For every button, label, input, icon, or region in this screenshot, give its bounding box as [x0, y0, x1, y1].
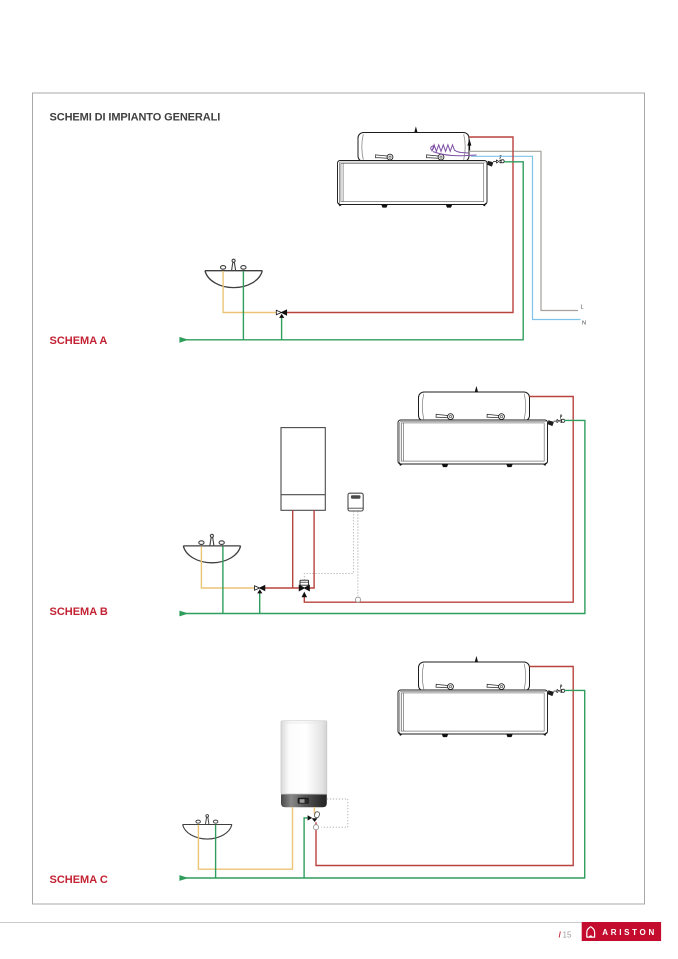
- probe pill C: [314, 825, 319, 830]
- svg-text:SCHEMA A: SCHEMA A: [50, 335, 108, 347]
- purple element lead A: [433, 152, 477, 156]
- green cold water main B: [182, 420, 585, 613]
- dotted control wire probe B: [357, 511, 359, 596]
- green inlet arrow C: [179, 875, 188, 881]
- sink C: [183, 815, 232, 839]
- yellow mixed-water pipe A: [223, 271, 276, 313]
- sink B: [183, 534, 240, 562]
- valve actuator B: [300, 580, 309, 585]
- electric water heater body C: [0, 0, 1, 1]
- svg-text:SCHEMA B: SCHEMA B: [50, 606, 108, 618]
- footer rule: [0, 922, 582, 924]
- green branch to valve B: [259, 592, 261, 613]
- green sink feed A: [242, 271, 244, 340]
- dotted control wire C: [321, 799, 348, 827]
- yellow inlet stub C: [313, 807, 315, 814]
- purple heating element A: [431, 145, 469, 153]
- ariston logo box: [582, 922, 661, 941]
- red pipe from heater B: [304, 397, 573, 603]
- mixing valve B: [255, 586, 260, 591]
- heater C bottom band: [281, 794, 327, 807]
- mixing valve A: [276, 310, 281, 315]
- check valve C: [314, 811, 320, 818]
- yellow hot pipe C: [198, 807, 292, 869]
- svg-text:/: /: [559, 931, 562, 940]
- red boiler flow pipes B: [293, 510, 314, 588]
- red arrow into valve B: [302, 592, 308, 598]
- red hot water pipe A: [287, 137, 513, 313]
- dotted control wire valve B: [304, 511, 353, 580]
- probe pill B: [356, 597, 361, 602]
- water heater A: [338, 126, 505, 207]
- page frame: [33, 93, 645, 904]
- green inlet arrow B: [179, 611, 188, 617]
- three-way valve B: [299, 585, 304, 590]
- green inlet arrow A: [179, 337, 188, 343]
- blue neutral line A: [471, 156, 581, 319]
- boiler panel line: [281, 494, 325, 496]
- grey electric line A: [470, 151, 578, 310]
- green cold water main A: [182, 162, 523, 340]
- svg-text:SCHEMA C: SCHEMA C: [50, 874, 108, 886]
- yellow mixed-water pipe B: [201, 546, 254, 588]
- svg-text:15: 15: [563, 931, 572, 940]
- heater C display: [298, 798, 309, 804]
- svg-text:SCHEMI DI IMPIANTO GENERALI: SCHEMI DI IMPIANTO GENERALI: [50, 112, 221, 124]
- svg-text:L: L: [581, 305, 584, 311]
- room thermostat B: [348, 493, 363, 511]
- ariston house icon: [587, 927, 595, 937]
- green branch to valve A: [281, 317, 283, 340]
- green cold water main C: [182, 690, 585, 878]
- water heater C: [398, 656, 565, 737]
- water heater B: [398, 386, 565, 467]
- green sink feed B: [222, 546, 224, 613]
- red pipe valve to boiler B: [265, 587, 315, 589]
- svg-text:N: N: [582, 321, 586, 327]
- green arrow into valve C: [308, 815, 313, 820]
- sink A: [205, 259, 262, 287]
- green sink feed C: [215, 825, 217, 878]
- svg-text:ARISTON: ARISTON: [602, 928, 657, 937]
- black probe arrow on tank A: [467, 139, 471, 151]
- red pipe from heater C: [316, 667, 573, 866]
- wall boiler B: [281, 428, 325, 511]
- green branch to valve C: [304, 818, 308, 878]
